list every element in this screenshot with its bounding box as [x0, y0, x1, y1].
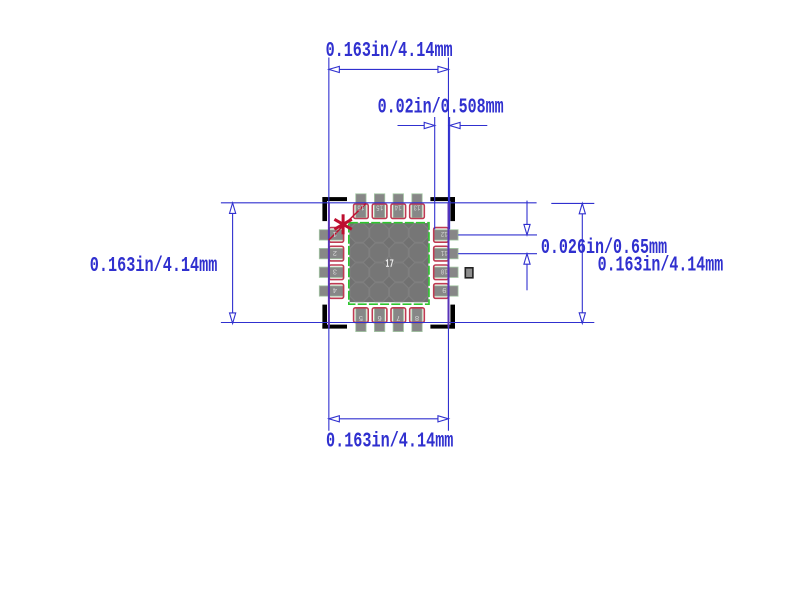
- pitch dimension vertical lower segment: [526, 254, 528, 291]
- svg-text:13: 13: [413, 202, 420, 210]
- pad copper pin 16 (top): [356, 194, 366, 218]
- pad copper pin 14 (top): [393, 194, 403, 218]
- pad copper pin 13 (top): [412, 194, 422, 218]
- svg-text:1: 1: [332, 229, 337, 237]
- pin 11 contact outline: [434, 246, 449, 261]
- pin 10 contact outline: [434, 265, 449, 280]
- svg-text:3: 3: [332, 266, 337, 274]
- extension line right dim top horizontal: [551, 202, 594, 204]
- courtyard corner bracket top-right: [430, 197, 455, 221]
- extension line body left edge vertical: [328, 58, 330, 431]
- svg-text:0.163in/4.14mm: 0.163in/4.14mm: [598, 255, 724, 278]
- left dimension line 4.14mm vertical: [232, 203, 234, 324]
- pin 14 contact outline: [391, 204, 406, 219]
- svg-text:10: 10: [440, 266, 447, 274]
- svg-text:0.163in/4.14mm: 0.163in/4.14mm: [326, 430, 453, 453]
- svg-text:6: 6: [377, 313, 382, 321]
- pad copper pin 15 (top): [374, 194, 384, 218]
- pad copper pin 12 (right): [434, 230, 458, 240]
- svg-text:14: 14: [394, 202, 401, 210]
- extension line body right edge vertical: [447, 58, 449, 431]
- svg-text:12: 12: [441, 229, 448, 237]
- pin 8 contact outline: [410, 308, 425, 323]
- bottom dimension line 4.14mm: [329, 418, 449, 420]
- svg-text:11: 11: [440, 248, 447, 256]
- arrowheads top dimension: [329, 66, 340, 72]
- courtyard corner bracket bottom-right: [430, 305, 455, 329]
- pad copper pin 1 (left): [319, 230, 343, 240]
- pad copper pin 4 (left): [319, 286, 343, 296]
- svg-text:4: 4: [332, 285, 337, 293]
- pin 2 contact outline: [329, 246, 344, 261]
- svg-text:0.02in/0.508mm: 0.02in/0.508mm: [378, 97, 504, 120]
- arrowheads right dimension: [579, 203, 585, 214]
- pin1 indicator asterisk: [334, 214, 351, 234]
- extension line pad12 left edge: [434, 117, 436, 229]
- courtyard corner bracket top-left: [322, 197, 347, 221]
- thermal pad number 17: [386, 260, 393, 267]
- svg-text:9: 9: [442, 285, 447, 293]
- thermal pad 17 green dashed soldermask outline: [349, 223, 429, 305]
- pin 4 contact outline: [329, 284, 344, 299]
- arrowheads bottom dimension: [329, 416, 340, 422]
- pad copper pin 3 (left): [319, 267, 343, 277]
- pin 16 contact outline: [354, 204, 369, 219]
- pin 6 contact outline: [372, 308, 387, 323]
- pad copper pin 5 (bottom): [356, 308, 366, 332]
- pitch extension line pad12 center: [458, 234, 537, 236]
- pitch extension line pad11 center: [458, 253, 537, 255]
- pin 9 orientation marker square: [465, 268, 473, 278]
- pad copper pin 6 (bottom): [374, 308, 384, 332]
- svg-text:5: 5: [358, 313, 363, 321]
- svg-text:8: 8: [415, 313, 420, 321]
- svg-text:0.163in/4.14mm: 0.163in/4.14mm: [326, 40, 453, 63]
- pad copper pin 8 (bottom): [412, 308, 422, 332]
- svg-text:2: 2: [333, 248, 338, 256]
- pin 15 contact outline: [372, 204, 387, 219]
- pin 1 contact outline: [329, 228, 344, 243]
- arrowheads pitch dimension: [524, 224, 530, 235]
- arrowheads left dimension: [230, 203, 236, 214]
- pin 12 contact outline: [434, 228, 449, 243]
- red pin contact outlines: [329, 204, 448, 323]
- pin1 indicator diagonal line: [329, 204, 366, 241]
- pad copper pin 11 (right): [434, 248, 458, 258]
- arrowheads pad width dimension: [424, 122, 435, 128]
- body outline overlay (purple blend) left: [328, 203, 330, 328]
- extension line pad12 right edge: [449, 117, 451, 229]
- pad copper pin 7 (bottom): [393, 308, 403, 332]
- extension line body top horizontal: [221, 202, 537, 204]
- pin 3 contact outline: [329, 265, 344, 280]
- pitch dimension vertical upper segment: [526, 201, 528, 235]
- pad copper pin 2 (left): [319, 248, 343, 258]
- pin 13 contact outline: [410, 204, 425, 219]
- right dimension line 4.14mm vertical: [581, 203, 583, 323]
- pad copper pin 10 (right): [434, 267, 458, 277]
- pin 5 contact outline: [354, 308, 369, 323]
- svg-text:0.163in/4.14mm: 0.163in/4.14mm: [90, 255, 218, 278]
- pad copper pin 9 (right): [434, 286, 458, 296]
- pin 7 contact outline: [391, 308, 406, 323]
- top dimension line 4.14mm: [329, 68, 449, 70]
- svg-text:15: 15: [376, 202, 383, 210]
- svg-text:7: 7: [396, 313, 401, 321]
- thermal pad 17 copper square: [350, 223, 429, 302]
- extension line body bottom horizontal: [221, 322, 594, 324]
- pin 9 contact outline: [434, 284, 449, 299]
- svg-text:16: 16: [357, 202, 364, 210]
- courtyard corner bracket bottom-left: [322, 305, 347, 329]
- body outline overlay (purple blend) right: [448, 203, 450, 328]
- pad width dimension arrow lines 0.508mm: [398, 125, 435, 127]
- thermal pad paste octagon cells 4x4: [350, 223, 428, 301]
